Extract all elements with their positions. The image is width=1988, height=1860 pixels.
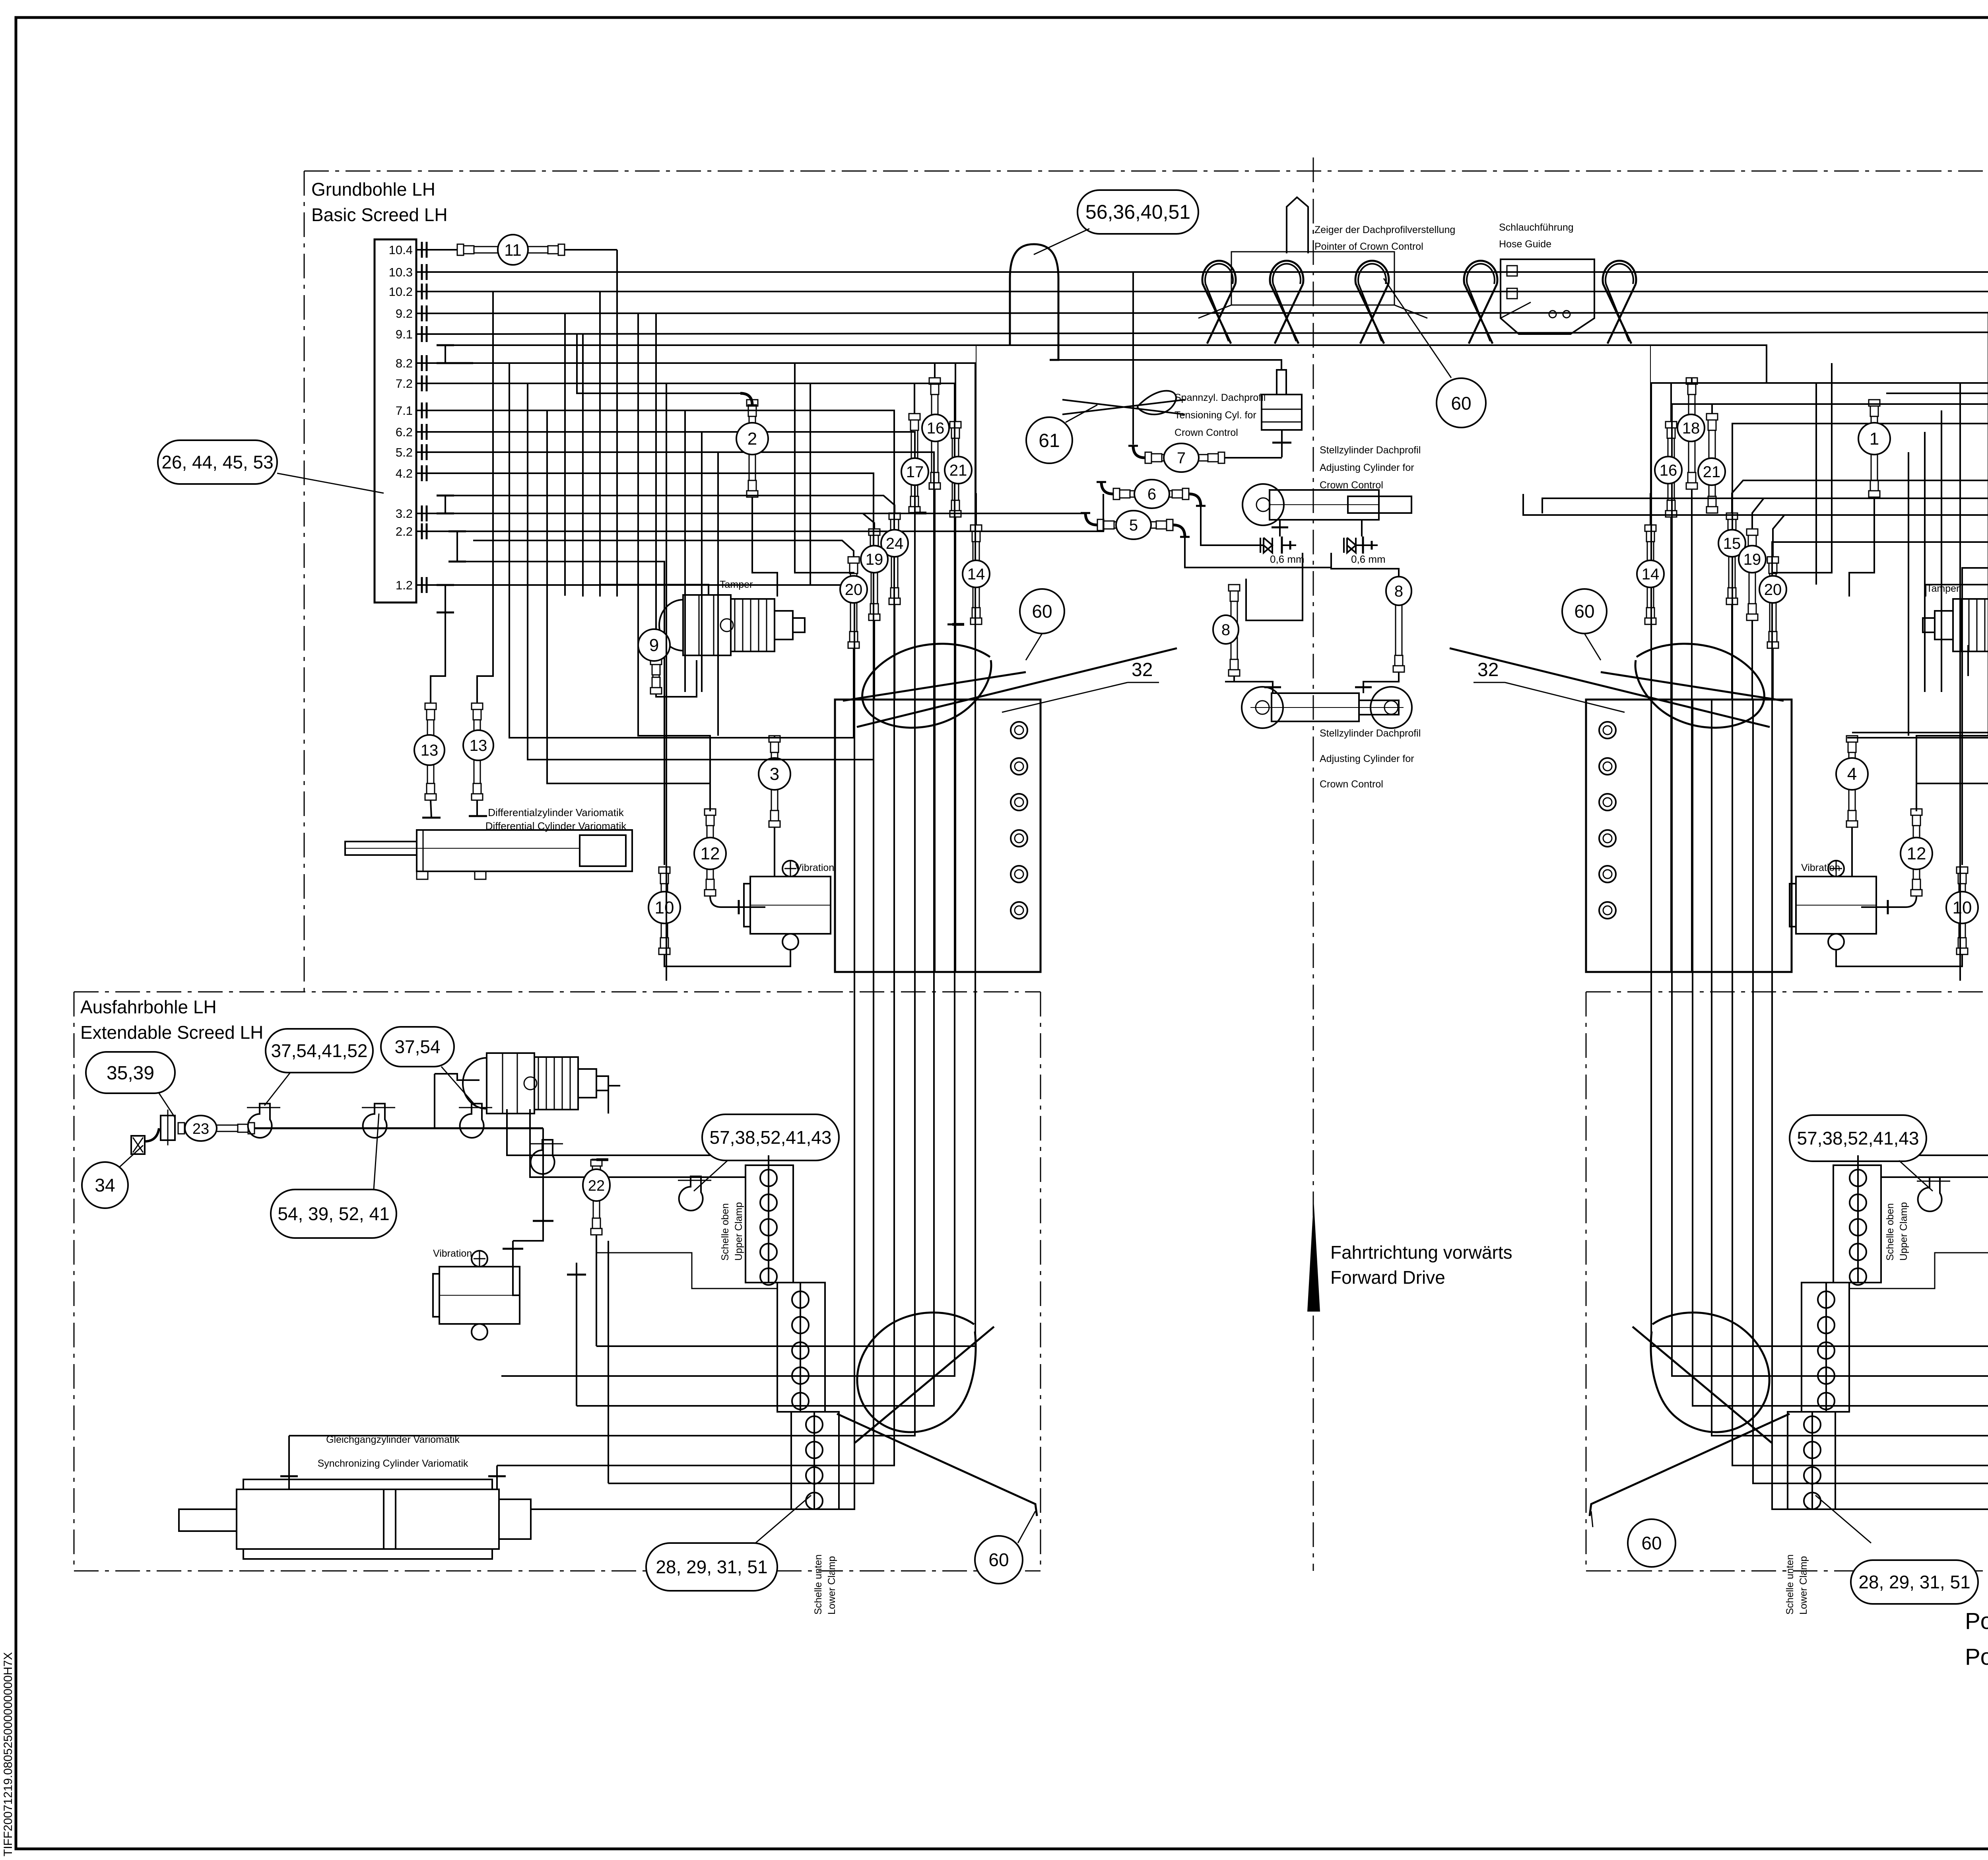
svg-text:17: 17: [906, 463, 924, 481]
LH throttle valve 0.6mm: [1264, 538, 1272, 553]
svg-text:60: 60: [1641, 1533, 1662, 1553]
hose 12 vertical: [705, 809, 716, 815]
svg-text:Tamper: Tamper: [720, 579, 753, 590]
LH sync cyl ports: [288, 1471, 290, 1489]
LH upper clamp hole 5: [760, 1268, 777, 1285]
hose 5 assembly: [1097, 519, 1104, 531]
LH tamper bottom line: [775, 648, 854, 738]
LH tee below port 1.2: [445, 585, 446, 612]
callout 26,44,45,53: [158, 440, 277, 484]
callout 4: [1836, 758, 1868, 790]
LH tee near port 3.2: [445, 496, 446, 513]
hose 6 to valve: [1201, 506, 1264, 545]
LH lower clamp hole 4: [806, 1493, 823, 1509]
LH vibration motor: [750, 877, 831, 934]
callout 5: [1116, 511, 1151, 539]
RH throttle valve 0.6mm: [1347, 538, 1356, 553]
leader 37,54 LH: [441, 1067, 476, 1106]
callout 60 RH grund: [1562, 589, 1607, 634]
leader 56 loop: [1034, 229, 1089, 255]
LH ext clamp through line a: [608, 1155, 814, 1509]
LH weave line f1: [564, 313, 566, 596]
svg-text:28, 29, 31, 51: 28, 29, 31, 51: [1858, 1572, 1970, 1592]
LH port 1.2 fitting: [416, 584, 430, 586]
RH plate hole 3: [1599, 794, 1616, 810]
LH plate hole 5: [1011, 866, 1027, 882]
svg-text:8: 8: [1394, 583, 1403, 600]
hose line port 10.3 LH-RH: [441, 271, 1988, 273]
weave drop v1281: [509, 363, 775, 738]
RH valve down line: [1331, 553, 1399, 579]
RH line 7.2 drop: [1672, 404, 1988, 700]
svg-text:21: 21: [1703, 463, 1721, 481]
svg-text:60: 60: [1574, 601, 1594, 622]
hose drop tee 2.2 branch: [457, 562, 664, 865]
LH weave line f6: [717, 452, 719, 736]
svg-text:Stellzylinder Dachprofil: Stellzylinder Dachprofil: [1320, 445, 1421, 456]
svg-text:1: 1: [1870, 429, 1879, 449]
LH weave line f8: [810, 383, 811, 585]
svg-text:11: 11: [504, 241, 522, 259]
hose 6 assembly: [1113, 488, 1120, 499]
LH port 9.2 fitting: [416, 313, 430, 314]
LH weave line f4: [684, 410, 686, 692]
svg-text:7.2: 7.2: [396, 377, 413, 391]
RH hose 1 vertical: [1869, 400, 1880, 406]
RH hose 14 vertical: [1645, 525, 1656, 531]
extendable screed RH left boundary: [1586, 992, 1587, 1571]
pointer of crown control symbol: [1287, 197, 1308, 253]
RH drop hose1 feed: [1886, 331, 1988, 393]
LH upper clamp strip: [745, 1165, 793, 1283]
callout 14 RH: [1637, 560, 1664, 587]
hose 20 vertical: [848, 557, 859, 563]
RH ext bundle line 3: [1732, 1014, 1988, 1465]
LH ext loop 60: [857, 1312, 976, 1432]
LH ext drop a: [576, 1263, 577, 1406]
basic screed boxes top boundary: [304, 171, 1988, 172]
svg-text:Synchronizing Cylinder Varioma: Synchronizing Cylinder Variomatik: [318, 1458, 468, 1469]
svg-text:5: 5: [1129, 517, 1138, 534]
RH hose 10: [1957, 867, 1968, 873]
callout 12: [694, 838, 726, 869]
LH ext p-clip 1: [248, 1104, 272, 1138]
svg-text:16: 16: [927, 420, 945, 437]
RH lower clamp hole 3: [1804, 1467, 1821, 1484]
LH middle clamp hole 3: [792, 1342, 809, 1359]
svg-text:Schlauchführung: Schlauchführung: [1499, 222, 1574, 233]
svg-text:1.2: 1.2: [396, 578, 413, 592]
hose 7 feed drop: [1132, 272, 1134, 445]
callout 13a: [414, 735, 445, 765]
svg-text:35,39: 35,39: [107, 1063, 154, 1084]
RH plate hole 4: [1599, 830, 1616, 847]
LH distributor manifold: [375, 239, 416, 603]
hose 19 vertical: [869, 529, 880, 535]
svg-text:2.2: 2.2: [396, 525, 413, 538]
LH upper clamp hole 2: [760, 1194, 777, 1211]
svg-text:60: 60: [1451, 393, 1471, 414]
callout 1: [1858, 423, 1890, 455]
RH middle clamp hole 2: [1818, 1317, 1835, 1333]
svg-text:37,54,41,52: 37,54,41,52: [271, 1040, 367, 1061]
callout 61: [1026, 417, 1072, 463]
svg-text:10: 10: [655, 898, 674, 917]
RH hose 20 vertical: [1767, 557, 1778, 563]
hose line 3.2 to hose5: [454, 513, 1084, 514]
callout 60 top centre: [1437, 378, 1486, 428]
RH upper clamp strip: [1833, 1165, 1881, 1283]
callout 15: [1718, 530, 1745, 557]
svg-text:10: 10: [1953, 898, 1972, 917]
svg-text:Vibration: Vibration: [433, 1248, 472, 1259]
callout 60 LH grund: [1020, 589, 1064, 634]
RH ext bundle line 1: [1772, 1014, 1988, 1509]
RH hose 4 vertical: [1846, 736, 1858, 742]
svg-text:14: 14: [967, 566, 985, 583]
LH ext clamp through line b: [596, 1253, 777, 1289]
hose line port 10.2 LH-RH: [441, 291, 1988, 292]
leader clip to 60: [1384, 278, 1451, 378]
callout 37,54,41,52 LH: [266, 1029, 373, 1073]
hose line 6.2 right drop: [441, 432, 915, 700]
callout 34 LH: [82, 1162, 128, 1208]
svg-text:Differentialzylinder Variomati: Differentialzylinder Variomatik: [488, 807, 624, 818]
LH plate hole 4: [1011, 830, 1027, 847]
svg-text:Schelle oben: Schelle oben: [1885, 1203, 1896, 1261]
hose 2 vertical: [747, 400, 758, 406]
hose line port 9.2 LH-RH: [441, 313, 1988, 313]
LH port 5.2 fitting: [416, 451, 430, 453]
svg-text:16: 16: [1660, 462, 1677, 479]
LH weave line f3: [666, 383, 667, 981]
LH port 9.1 fitting: [416, 333, 430, 335]
RH weave line f6: [1908, 452, 1909, 736]
svg-text:Vibration: Vibration: [795, 862, 834, 873]
svg-text:9.1: 9.1: [396, 327, 413, 341]
LH ext tamper lines: [507, 1109, 769, 1155]
LH weave line f9: [547, 410, 710, 783]
RH ext bundle line 7: [1651, 1014, 1988, 1346]
callout 21 RH: [1698, 458, 1725, 485]
hose drop to tamper left: [599, 292, 601, 597]
svg-text:Fahrtrichtung vorwärts: Fahrtrichtung vorwärts: [1330, 1242, 1512, 1263]
svg-text:22: 22: [588, 1178, 605, 1194]
LH ext bundle line 3: [497, 1014, 894, 1465]
RH ext clamp through a: [1812, 1155, 1988, 1509]
svg-text:Pointer of Crown Control: Pointer of Crown Control: [1314, 241, 1423, 252]
svg-text:19: 19: [866, 551, 883, 568]
svg-text:54, 39, 52, 41: 54, 39, 52, 41: [278, 1203, 389, 1224]
LH ext drop c: [608, 1241, 609, 1483]
LH clamp plate 32: [835, 700, 1041, 972]
hose line aux lower: [473, 362, 975, 364]
callout 10 RH: [1946, 892, 1978, 923]
LH upper clamp hole 4: [760, 1244, 777, 1260]
adj cyl upper right port: [1361, 520, 1363, 536]
svg-text:Pos. 30 hose kit screed: Pos. 30 hose kit screed: [1965, 1644, 1988, 1670]
svg-text:Ausfahrbohle LH: Ausfahrbohle LH: [80, 997, 217, 1017]
RH line 7.1 drop: [1732, 424, 1988, 700]
hose line 2.2 to hose6: [441, 494, 1103, 531]
svg-text:8.2: 8.2: [396, 356, 413, 370]
hose 5 to lower line: [1185, 537, 1331, 568]
callout 28,29,31,51 LH: [646, 1543, 777, 1591]
leader 28 LH: [755, 1495, 811, 1543]
hose 3 vertical: [769, 736, 780, 742]
LH ext bundle line 7: [596, 1014, 975, 1346]
LH valve down line: [1246, 553, 1303, 620]
LH lower clamp hole 1: [806, 1416, 823, 1433]
svg-text:2: 2: [747, 429, 757, 449]
LH port 10.2 fitting: [416, 291, 430, 292]
hairpin clip 1: [1202, 261, 1236, 344]
LH tamper motor: [659, 600, 683, 651]
RH middle clamp hole 1: [1818, 1291, 1835, 1308]
hose 21 vertical: [950, 422, 961, 428]
svg-text:6.2: 6.2: [396, 425, 413, 439]
hose line port 9.1 LH-RH: [441, 332, 1988, 334]
RH ext bundle line 6: [1672, 1014, 1988, 1376]
LH port 10.3 fitting: [416, 271, 430, 273]
svg-text:10.2: 10.2: [389, 285, 413, 299]
RH tamper motor: [1923, 595, 1988, 655]
callout 8 right: [1386, 577, 1411, 605]
LH ext bundle line 4: [289, 1014, 915, 1436]
RH drop vib 12: [1916, 312, 1988, 811]
svg-text:24: 24: [886, 535, 904, 552]
RH middle clamp strip: [1802, 1283, 1849, 1412]
svg-text:Grundbohle LH: Grundbohle LH: [311, 179, 435, 200]
callout 8 left: [1213, 615, 1239, 644]
callout 3: [759, 758, 790, 790]
svg-text:Vibration: Vibration: [1801, 862, 1840, 873]
leader 35,39 LH: [159, 1093, 175, 1118]
svg-text:6: 6: [1147, 486, 1156, 503]
leader 57 RH: [1899, 1160, 1933, 1191]
hairpin clip 2: [1270, 261, 1303, 344]
LH middle clamp hole 2: [792, 1317, 809, 1333]
hose 17 vertical: [909, 414, 920, 420]
LH sync cylinder: [237, 1489, 499, 1549]
loop to tensioning rod line: [1050, 360, 1281, 370]
RH ext bundle line 5: [1693, 1014, 1988, 1406]
RH middle clamp hole 3: [1818, 1342, 1835, 1359]
callout 56,36,40,51: [1077, 190, 1198, 234]
svg-text:Lower Clamp: Lower Clamp: [1798, 1556, 1809, 1615]
weave drop v1327: [528, 383, 874, 760]
LH ext elbow: [145, 1128, 159, 1141]
leader 37,54,41,52 LH: [264, 1073, 290, 1106]
LH tee near port 2.2: [456, 531, 458, 562]
hose line 7.1 right drop: [441, 410, 894, 700]
LH ext vib tees: [542, 1213, 544, 1229]
RH ext clip small a: [1918, 1177, 1942, 1211]
LH port 6.2 fitting: [416, 431, 430, 433]
RH hose 12: [1911, 809, 1922, 815]
RH upper clamp hole 4: [1850, 1244, 1866, 1260]
callout 16: [922, 414, 949, 441]
svg-text:19: 19: [1743, 551, 1761, 568]
hose 11 assembly: [457, 244, 464, 255]
RH lower clamp hole 2: [1804, 1442, 1821, 1458]
RH middle clamp hole 5: [1818, 1393, 1835, 1409]
svg-text:Extendable Screed LH: Extendable Screed LH: [80, 1022, 263, 1043]
svg-text:Tensioning Cyl. for: Tensioning Cyl. for: [1175, 410, 1256, 421]
callout 11: [498, 235, 528, 265]
LH weave line f2: [582, 334, 584, 597]
RH ext bundle line 2: [1753, 1014, 1988, 1483]
RH tee branch drop: [1962, 568, 1988, 865]
LH hose loop 60: [862, 644, 991, 728]
svg-text:Schelle oben: Schelle oben: [720, 1203, 731, 1261]
hose 16 vertical: [929, 378, 940, 384]
hose drop to diff cyl A: [431, 612, 445, 703]
leader 54,39,52,41 LH: [374, 1114, 379, 1189]
svg-text:Spannzyl. Dachprofil: Spannzyl. Dachprofil: [1175, 392, 1266, 403]
hairpin clip 4: [1464, 261, 1497, 344]
callout 60 RH ext: [1628, 1519, 1675, 1567]
svg-text:18: 18: [1682, 420, 1700, 437]
hose 13a vertical: [425, 703, 436, 709]
LH ext port stub a: [288, 1436, 290, 1471]
LH ext tamper motor: [463, 1058, 487, 1109]
LH ext bundle line 6: [501, 1014, 955, 1376]
svg-text:Lower Clamp: Lower Clamp: [826, 1556, 837, 1615]
LH differential cylinder: [417, 830, 632, 871]
hose loop 56,36,40,51: [1010, 244, 1058, 360]
callout 35,39 LH: [86, 1052, 175, 1093]
LH port 8.2 fitting: [416, 362, 430, 364]
LH plate hole 2: [1011, 758, 1027, 775]
RH ext bundle line 4: [1712, 1014, 1988, 1436]
callout 10: [648, 892, 680, 923]
callout 57,38,52,41,43 RH: [1790, 1115, 1926, 1161]
svg-text:3.2: 3.2: [396, 507, 413, 521]
svg-text:13: 13: [421, 742, 439, 759]
svg-text:Crown Control: Crown Control: [1320, 779, 1383, 790]
callout 24: [881, 530, 908, 557]
LH lower clamp hole 2: [806, 1442, 823, 1458]
svg-text:Forward Drive: Forward Drive: [1330, 1267, 1445, 1288]
svg-text:32: 32: [1132, 659, 1153, 680]
RH upper clamp hole 5: [1850, 1268, 1866, 1285]
hose line 7.2 right drop: [441, 383, 955, 700]
svg-text:9.2: 9.2: [396, 307, 413, 321]
hose 13b vertical: [472, 703, 483, 709]
RH line 3.2 to hose5: [1542, 498, 1988, 513]
LH lower clamp hole 3: [806, 1467, 823, 1484]
svg-text:61: 61: [1039, 430, 1060, 451]
callout 28,29,31,51 RH: [1851, 1560, 1978, 1604]
LH ext bundle line 5: [577, 1014, 934, 1406]
LH ext vibration motor: [439, 1267, 520, 1324]
LH plate hole 1: [1011, 722, 1027, 739]
LH port 3.2 fitting: [416, 513, 430, 514]
LH ext clip small b: [531, 1140, 555, 1174]
LH weave line f10: [473, 540, 620, 541]
svg-text:3: 3: [770, 764, 779, 784]
RH weave line f4: [1941, 410, 1942, 692]
RH tamper feed: [1926, 585, 1988, 597]
svg-text:20: 20: [1764, 581, 1782, 599]
hose 24 vertical: [889, 513, 900, 519]
LH weave line f5: [701, 432, 703, 692]
callout 2: [736, 423, 768, 455]
svg-text:7: 7: [1177, 449, 1186, 467]
adj cyl upper left port: [1279, 520, 1281, 536]
svg-text:Crown Control: Crown Control: [1175, 427, 1238, 438]
adjusting cylinder upper: [1242, 484, 1284, 525]
svg-text:Schelle unten: Schelle unten: [1784, 1554, 1796, 1615]
svg-text:Differential Cylinder Variomat: Differential Cylinder Variomatik: [485, 820, 627, 832]
hose drop hose2 feed: [577, 334, 740, 393]
RH hose loop 60: [1635, 644, 1764, 728]
hose guide plate: [1501, 259, 1594, 334]
svg-text:28, 29, 31, 51: 28, 29, 31, 51: [656, 1557, 767, 1577]
leader 60 LH ext: [1018, 1511, 1035, 1543]
svg-text:13: 13: [470, 737, 487, 754]
RH line 2.2 to hose6: [1523, 494, 1988, 515]
svg-text:7.1: 7.1: [396, 404, 413, 418]
svg-text:TIFF20071219.080525000000000H7: TIFF20071219.080525000000000H7X: [2, 1652, 15, 1856]
RH ext loop 60: [1651, 1312, 1769, 1432]
RH weave drop v1281: [1847, 383, 1988, 738]
LH weave line f7: [795, 363, 854, 573]
pointer frame: [1231, 252, 1394, 305]
leader 28 RH: [1815, 1495, 1871, 1543]
hose line 4.2 right drop: [441, 473, 874, 700]
RH hose 16 vertical: [1666, 422, 1677, 428]
svg-text:10.4: 10.4: [389, 243, 413, 257]
RH weave line f7: [1772, 363, 1832, 573]
RH clamp plate 32: [1586, 700, 1792, 972]
RH vibration motor: [1796, 877, 1876, 934]
hose line 1.2 to clamp plate: [454, 585, 854, 700]
LH ext bundle line 1: [531, 1014, 854, 1509]
svg-text:8: 8: [1221, 621, 1230, 639]
svg-text:5.2: 5.2: [396, 445, 413, 459]
callout 20 RH: [1759, 576, 1786, 603]
leader 60 RH grund: [1584, 634, 1601, 660]
LH middle clamp strip: [777, 1283, 825, 1412]
callout 19: [861, 546, 888, 573]
svg-text:57,38,52,41,43: 57,38,52,41,43: [1797, 1128, 1919, 1149]
extendable screed LH left boundary: [74, 992, 75, 1571]
hose 8 left to cyl port: [1225, 682, 1273, 693]
LH middle clamp hole 4: [792, 1367, 809, 1384]
svg-text:32: 32: [1477, 659, 1499, 680]
leader 60 LH grund: [1026, 634, 1042, 660]
RH lower clamp hole 1: [1804, 1416, 1821, 1433]
callout 60 LH ext: [975, 1536, 1023, 1584]
RH lower clamp hole 4: [1804, 1493, 1821, 1509]
hairpin clip 5: [1603, 261, 1636, 344]
RH plate hole 6: [1599, 902, 1616, 919]
callout 37,54 LH: [381, 1027, 454, 1067]
svg-text:60: 60: [988, 1549, 1009, 1570]
Grundbohle LH left boundary: [304, 171, 305, 992]
callout 22 LH: [583, 1169, 610, 1201]
callout 13b: [463, 730, 493, 760]
LH ext p-clip 2: [363, 1104, 387, 1138]
RH plate verticals continue: [1771, 700, 1773, 1014]
hose 23 LH: [178, 1123, 184, 1134]
extendable screed LH top boundary: [74, 991, 1041, 993]
svg-text:14: 14: [1642, 566, 1660, 583]
RH tamper bottom line: [1967, 645, 1969, 676]
svg-text:34: 34: [95, 1175, 115, 1195]
